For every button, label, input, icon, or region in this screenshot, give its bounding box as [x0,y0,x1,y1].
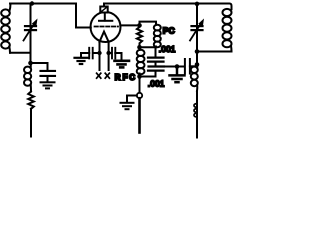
grid dashed line [95,26,119,28]
node antenna junction dot [195,62,200,67]
ground filament left [75,58,88,64]
filament [100,32,109,42]
inductor plate RFC [137,47,145,76]
capacitor C5 plate blocking .001 upper [148,47,164,66]
node bus ground dot [175,64,180,69]
ground filament right [115,61,130,68]
ground below C2 [41,82,55,88]
node PC bottom junction dot [137,45,142,50]
svg-text:F: F [123,73,128,82]
node filament right dot [106,51,110,55]
coil L1 grid tank coil [1,4,10,53]
node B grid-leak junction dot [28,61,33,66]
coil L2 plate tank coil [223,9,232,52]
capacitor C7 antenna coupling [185,59,195,74]
feeder link bumps [194,104,197,117]
ground B+ ring [121,103,134,109]
svg-text:R: R [115,73,121,82]
svg-text:.001: .001 [148,80,165,89]
plate bar and lead [104,13,106,21]
variable capacitor C1 grid tuning [24,4,38,64]
wire grid lead down and into tube [76,4,91,28]
wire plate top rail [104,4,232,10]
filament leg left [99,42,101,70]
node plate junction dot [137,23,142,28]
wire antenna feeder down [196,91,198,138]
plate top cap box [100,7,107,13]
variable capacitor C3 plate tuning [190,4,204,52]
coil L3 antenna link [191,65,198,92]
wire grid return lead to key [30,109,32,137]
ground antenna bus [170,67,185,83]
wire B+ lead to bottom [138,98,141,132]
parasitic choke PC resistor [137,25,142,47]
wire antenna bus [164,66,184,68]
filament leg right [108,42,110,70]
terminal ring B+ [137,93,142,98]
label x filament terminal right [105,73,109,78]
resistor R1 grid leak [28,92,34,109]
node filament left dot [97,51,101,55]
svg-text:PC: PC [163,26,175,36]
wire tank bottom to antenna node [196,52,198,65]
wire to grid capacitor [31,63,48,70]
capacitor C6 bypass .001 lower [148,67,164,77]
capacitor filament bypass left [81,48,100,59]
svg-text:C: C [129,73,135,82]
wire RFC bottom to blocking cap [140,76,156,78]
node tank bottom dot [195,49,200,54]
node RFC bottom junction dot [137,74,142,79]
wire grid-tank top rail [10,3,76,5]
capacitor C2 grid bypass [41,71,56,82]
tube V1 triode [91,4,121,43]
node A junction dot on top rail [30,1,34,5]
node plate tank top dot [195,2,200,7]
wire B+ lead below RFC [139,77,141,93]
wire ring to ground [127,96,137,103]
parasitic choke PC coil [140,22,161,48]
wire grid tank bottom [10,52,31,54]
wire plate tank bottom rail [197,51,232,53]
label x filament terminal left [97,73,101,78]
svg-text:.001: .001 [159,45,176,54]
capacitor filament bypass right [109,48,122,60]
inductor grid RFC [24,63,31,92]
wire plate side lead to PC [120,24,139,26]
